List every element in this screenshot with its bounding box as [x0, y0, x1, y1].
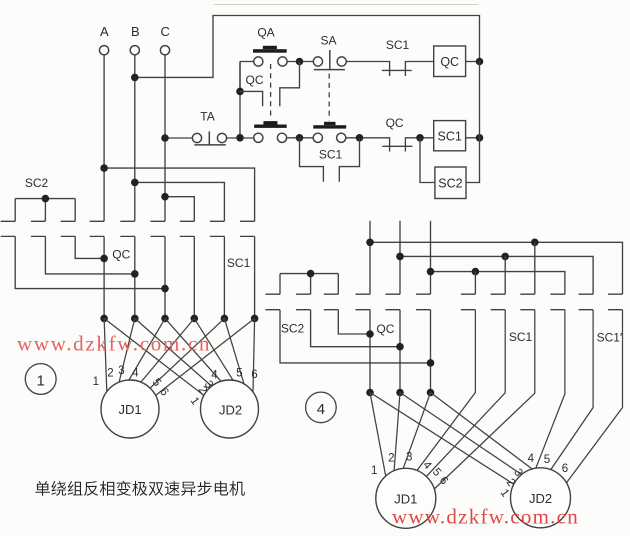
- svg-text:TA: TA: [200, 110, 214, 124]
- wire right feed C: [430, 221, 432, 294]
- contactor SC2 bridge: [15, 199, 75, 222]
- wire SC1R pole2 to JD1 t5: [426, 310, 505, 477]
- svg-text:QC: QC: [246, 73, 264, 87]
- wire QCR pole1 lower: [369, 310, 371, 393]
- junction dist C left: [427, 268, 435, 276]
- wire B feed to SC1 pole: [135, 182, 225, 221]
- svg-text:SC2: SC2: [281, 322, 305, 336]
- wire SC2R pole3 lower: [338, 310, 370, 334]
- svg-text:JD2: JD2: [219, 403, 242, 418]
- node circle 4: [306, 392, 337, 423]
- svg-text:4: 4: [211, 370, 218, 382]
- junction QC tap: [416, 134, 424, 142]
- svg-text:QC: QC: [112, 248, 130, 262]
- contactor SC2 right bridge: [280, 274, 338, 295]
- svg-text:1: 1: [37, 373, 45, 390]
- svg-text:C: C: [161, 24, 170, 39]
- wire QC box to bus: [466, 61, 480, 63]
- contact SC1 interlock right prong: [339, 138, 359, 182]
- wire SC1'R pole1 to JD2 t4: [536, 310, 565, 469]
- svg-text:5: 5: [236, 368, 242, 380]
- node fan junctions left: [100, 315, 108, 323]
- wire SC1 pole3 lower: [254, 236, 256, 318]
- wire SC2 pole2 lower: [45, 236, 134, 274]
- svg-text:SC1: SC1: [227, 256, 251, 270]
- contact SC1 right prong: [405, 62, 433, 77]
- wire distribution line A: [370, 242, 623, 294]
- svg-text:JD1: JD1: [118, 402, 141, 417]
- wire SA to SC1 contact: [346, 62, 389, 77]
- pushbutton TA stem and bar: [194, 131, 225, 145]
- svg-text:2: 2: [388, 453, 394, 465]
- junction dist A tap: [531, 239, 539, 247]
- wire QA left down to aux tap: [239, 62, 241, 92]
- wire (faint scan ghost of top bus): [214, 4, 478, 6]
- svg-text:QC: QC: [440, 55, 459, 69]
- pushbutton QA lower circles: [254, 133, 263, 142]
- pushbutton TA contact circles: [192, 133, 201, 142]
- node circle 1: [25, 364, 56, 395]
- terminal B: [130, 46, 139, 55]
- wire TA to QA2: [226, 137, 254, 139]
- svg-text:QA: QA: [257, 26, 274, 40]
- svg-text:A: A: [100, 24, 109, 39]
- wire QA to SA: [287, 61, 314, 63]
- junction row2 left: [236, 134, 244, 142]
- wire SC1 pole1 lower: [193, 236, 195, 318]
- wire QC poleB lower: [134, 236, 136, 318]
- svg-text:1: 1: [93, 376, 99, 388]
- junction B feed: [131, 179, 139, 187]
- wire bus down to SC2 box: [466, 62, 480, 183]
- junction row1 SA tap: [296, 58, 304, 66]
- svg-text:3: 3: [118, 365, 124, 377]
- junction QC-SC2 c: [161, 285, 169, 293]
- svg-text:SC1′: SC1′: [597, 331, 623, 345]
- wire SC1R pole1 to JD1 t4: [417, 310, 475, 471]
- wire SA2 to QC contact: [346, 138, 390, 152]
- mech link QA dashed: [270, 64, 272, 119]
- contact QC aux left prong: [240, 91, 263, 106]
- junction A feed: [100, 164, 108, 172]
- contact SC1 interlock left prong: [300, 138, 324, 182]
- svg-text:B: B: [131, 24, 140, 39]
- junction dist B left: [396, 253, 404, 261]
- svg-text:SC2: SC2: [438, 177, 462, 191]
- wire lattice right fan: [370, 393, 532, 485]
- wire distribution line B: [400, 256, 593, 294]
- wire SC1 box to bus: [466, 137, 480, 139]
- pushbutton SA lower bar: [313, 125, 346, 128]
- wire QC poleA lower: [103, 236, 105, 318]
- junction on B: [131, 74, 139, 82]
- wire QC poleC lower: [164, 236, 166, 318]
- wire QCR pole3 lower: [430, 310, 432, 393]
- wire right feed B: [399, 221, 401, 294]
- pushbutton QA bar: [253, 49, 287, 53]
- junction on C: [161, 134, 169, 142]
- svg-text:4: 4: [528, 453, 535, 465]
- junction QCR c: [427, 359, 435, 367]
- caption text (motor description): [35, 481, 244, 496]
- motor JD1 right circle: [376, 468, 436, 528]
- junction SC2 bridge: [42, 195, 50, 203]
- svg-text:SC1: SC1: [319, 148, 343, 162]
- junction dist B tap: [501, 253, 509, 261]
- contact SC1 crossbar: [382, 69, 412, 71]
- svg-text:www.dzkfw.com.cn: www.dzkfw.com.cn: [17, 332, 211, 356]
- switch SA stem and bar: [314, 50, 345, 70]
- wire row1 left corner: [240, 62, 254, 138]
- terminal C: [160, 46, 169, 55]
- wire A feed to SC1 pole: [104, 168, 255, 221]
- coil SC1 box: [434, 121, 466, 151]
- switch SA contact circles: [313, 57, 322, 66]
- junction row2 right: [356, 134, 364, 142]
- junction QCR a: [366, 330, 374, 338]
- svg-text:6: 6: [562, 463, 568, 475]
- wire SC1'R pole3 to JD2 t6: [567, 310, 623, 483]
- wire SC1 pole mid upper: [475, 242, 534, 294]
- wire SC1 pole2 lower: [223, 236, 225, 318]
- wire C feed to SC1 pole: [165, 197, 194, 222]
- wire SC1'R pole2 to JD2 t5: [551, 310, 593, 470]
- junction dist C tap: [472, 268, 480, 276]
- pushbutton QA contact circles: [254, 57, 263, 66]
- wire QA2 to SA2: [286, 137, 313, 139]
- wire SC2R pole2 lower: [311, 310, 400, 347]
- wire SC1R pole3 to JD1 t6: [434, 310, 535, 489]
- wire QC tap down to SC2 box: [420, 138, 435, 183]
- junction QC-SC2 a: [100, 255, 108, 263]
- wire SC2 pole3 lower: [75, 236, 104, 258]
- wire C to TA: [165, 137, 193, 139]
- junction aux tap left: [236, 88, 244, 96]
- svg-text:3: 3: [406, 452, 412, 464]
- svg-text:SC1: SC1: [509, 330, 533, 344]
- motor JD2 right circle: [511, 468, 571, 528]
- wire distribution line C: [431, 272, 565, 295]
- pushbutton QA lower bar: [254, 125, 287, 128]
- svg-text:QC: QC: [376, 322, 394, 336]
- contact QC right prong: [405, 138, 433, 152]
- junction SC2 right bridge: [307, 270, 315, 278]
- wire B to top bus riser: [135, 16, 480, 78]
- wire SC2 pole1 lower: [15, 236, 165, 288]
- contactor bank right: contact gap ticks: [266, 294, 623, 310]
- junction QCR b: [396, 343, 404, 351]
- svg-text:4: 4: [317, 401, 325, 418]
- coil SC2 box: [435, 167, 466, 199]
- svg-text:SC1: SC1: [386, 38, 410, 52]
- wire lattice left motors: [104, 318, 255, 395]
- contactor bank left: contact gap ticks: [1, 221, 255, 236]
- contact QC crossbar: [382, 145, 412, 147]
- svg-text:5: 5: [544, 454, 550, 466]
- coil QC box: [434, 46, 466, 77]
- wire phase A vertical: [103, 55, 105, 222]
- wire phase B vertical: [134, 55, 136, 222]
- node fan junctions right: [366, 389, 374, 397]
- wire SC2R pole1 lower: [280, 310, 431, 363]
- svg-text:SA: SA: [320, 34, 336, 48]
- svg-text:www.dzkfw.com.cn: www.dzkfw.com.cn: [392, 505, 579, 529]
- mech link SA dashed: [328, 74, 330, 121]
- svg-text:2: 2: [107, 368, 113, 380]
- svg-text:SC2: SC2: [25, 176, 49, 190]
- motor JD1 circle: [101, 380, 159, 438]
- svg-text:QC: QC: [386, 116, 404, 130]
- pushbutton SA lower circles: [313, 133, 322, 142]
- junction C feed: [161, 193, 169, 201]
- terminal A: [100, 46, 109, 55]
- junction dist A left: [366, 239, 374, 247]
- junction QC-SC2 b: [131, 270, 139, 278]
- junction bus row2: [476, 134, 484, 142]
- svg-text:SC1: SC1: [438, 130, 462, 144]
- junction bus row1: [476, 58, 484, 66]
- junction row2 mid: [296, 134, 304, 142]
- svg-text:4: 4: [132, 368, 139, 380]
- wire QCR pole2 lower: [399, 310, 401, 393]
- wire phase C vertical: [164, 55, 166, 222]
- contact QC aux right prong: [280, 62, 300, 107]
- svg-text:1: 1: [371, 465, 377, 477]
- svg-text:6: 6: [251, 369, 257, 381]
- motor JD2 circle: [201, 380, 259, 438]
- wire right feed A: [369, 221, 371, 294]
